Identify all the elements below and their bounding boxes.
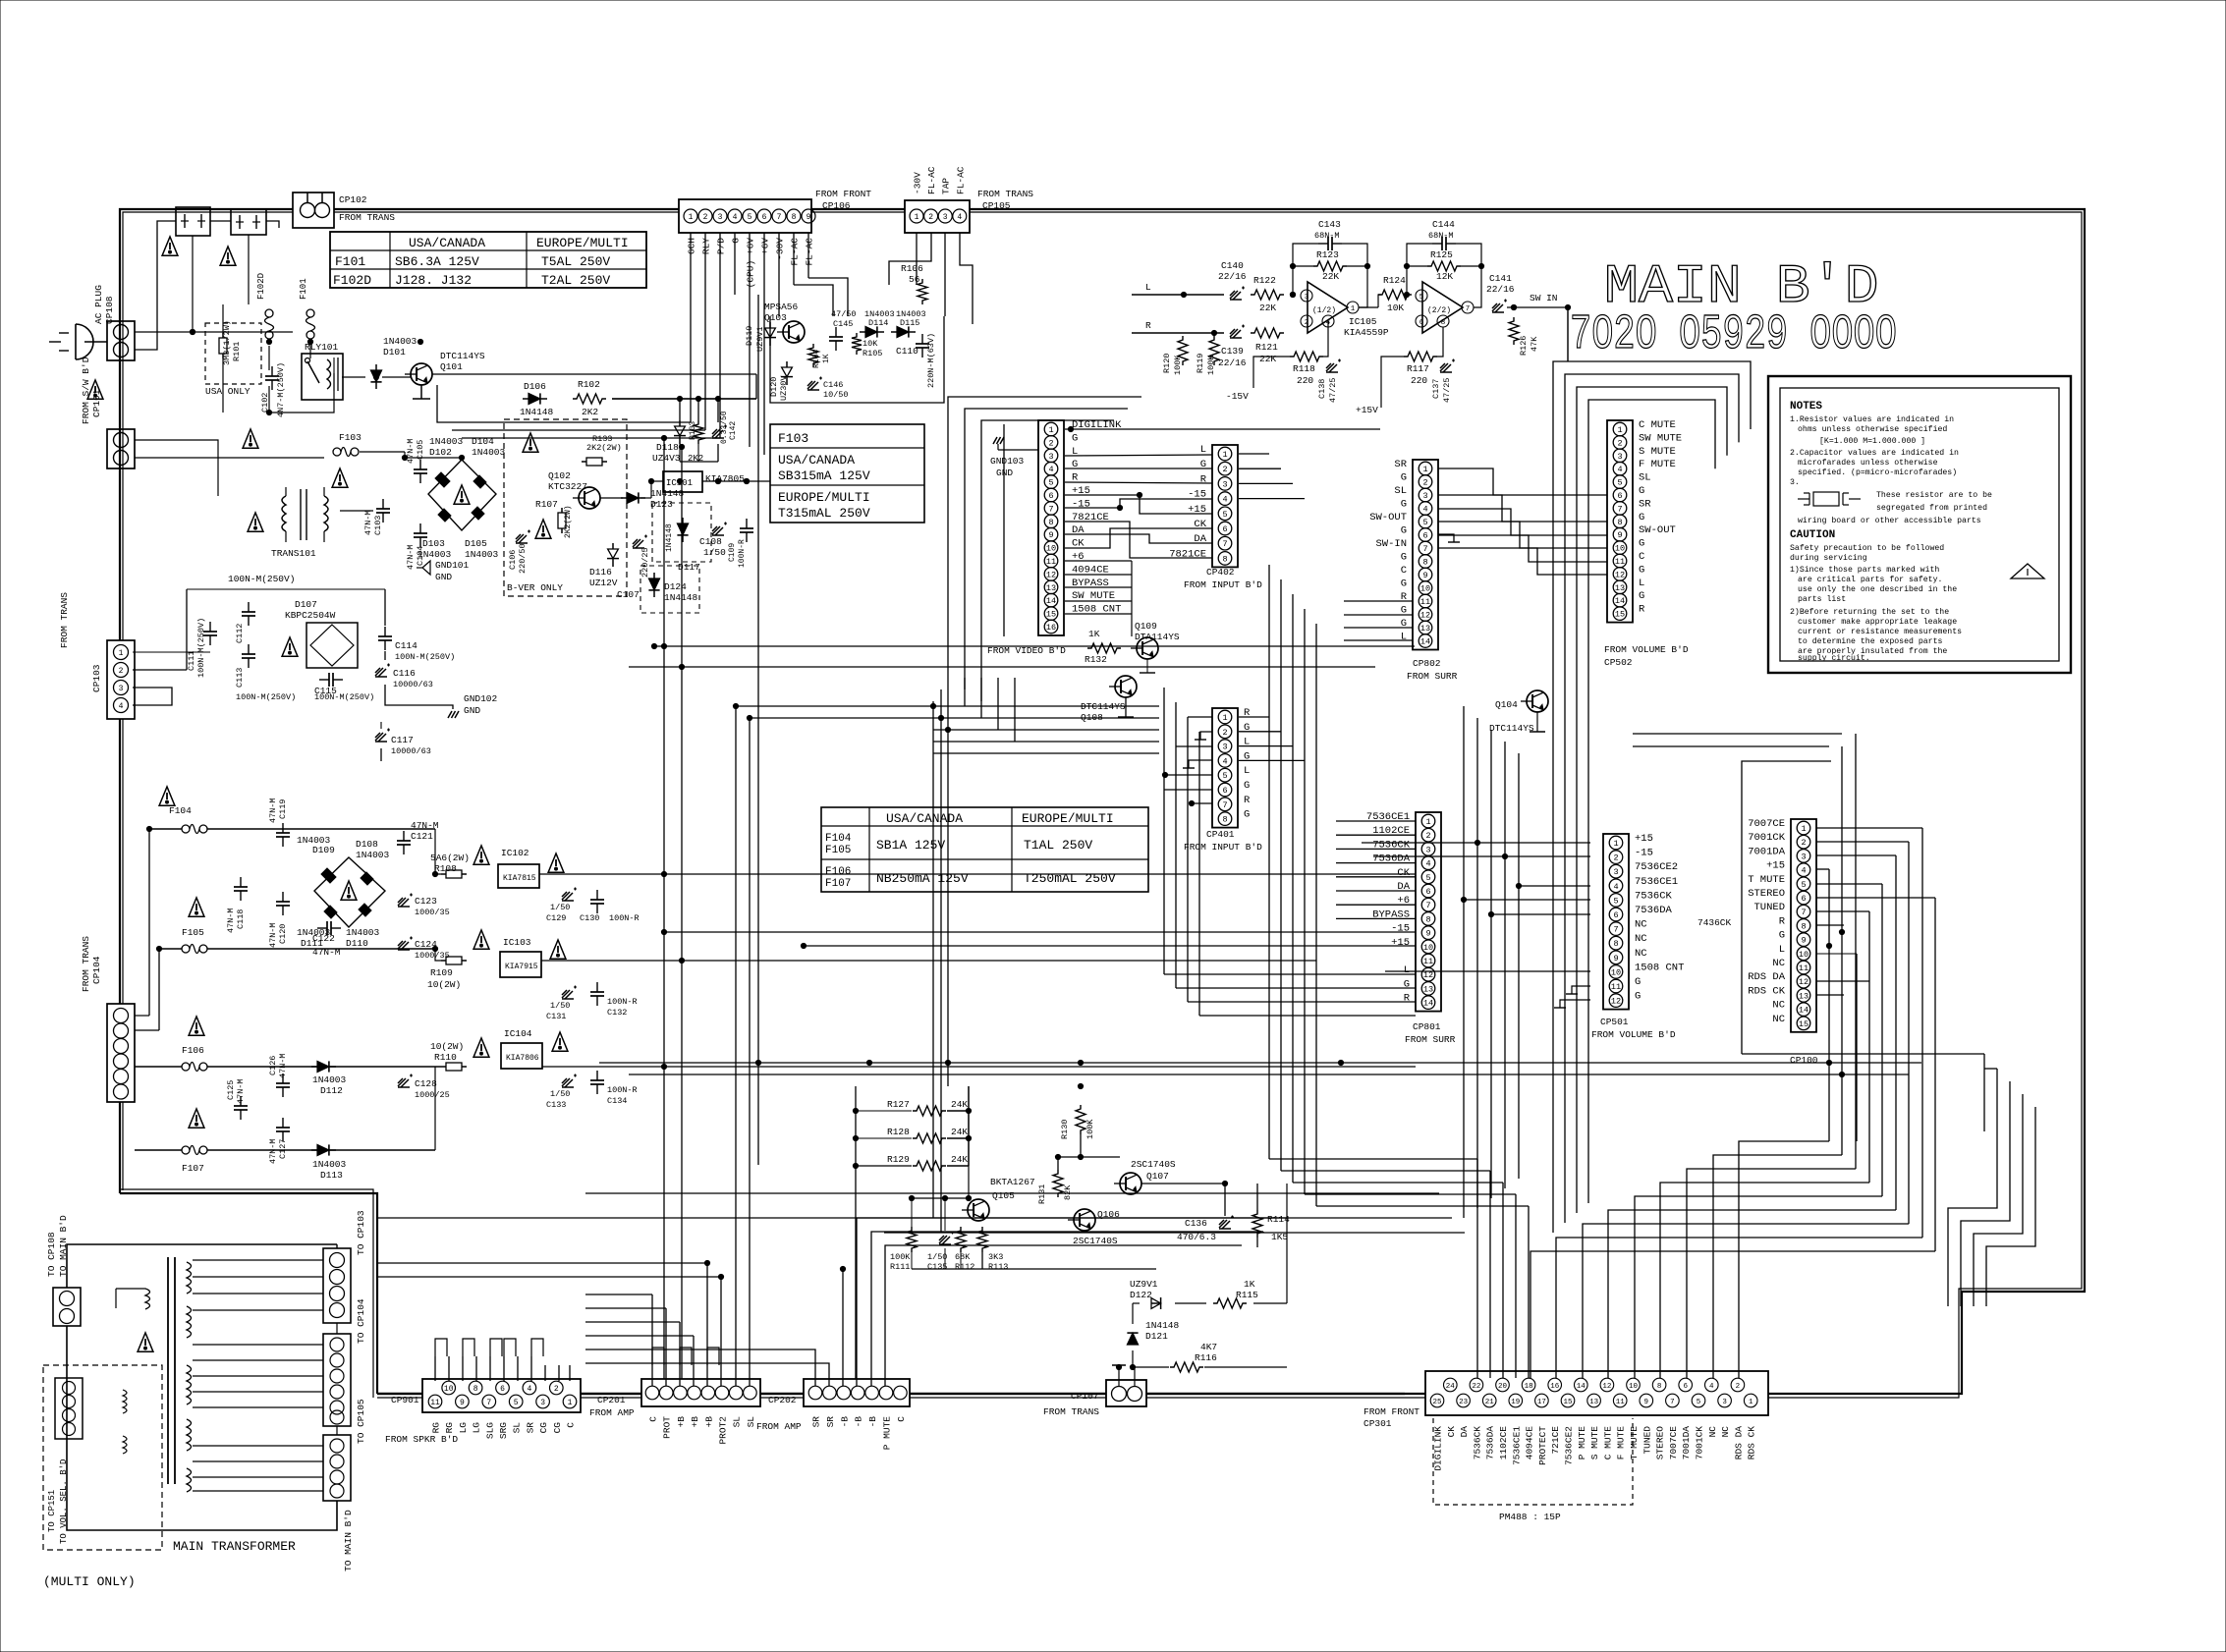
capacitor C106 220/50: [516, 530, 530, 544]
svg-text:C137: C137: [1431, 379, 1441, 399]
svg-text:8: 8: [1425, 914, 1430, 924]
svg-text:C134: C134: [607, 1096, 627, 1106]
svg-text:8: 8: [1222, 815, 1227, 825]
svg-text:2: 2: [1736, 1383, 1741, 1391]
svg-text:SW-OUT: SW-OUT: [1639, 524, 1676, 536]
wire CP401 pins right: [1239, 716, 1269, 718]
svg-text:9: 9: [1422, 571, 1427, 580]
resistor R125 12K: [1427, 261, 1461, 271]
svg-text:SR: SR: [525, 1422, 535, 1434]
capacitor C102 4N7-M(250V): [271, 366, 273, 376]
svg-text:24K: 24K: [951, 1154, 968, 1165]
svg-text:-15V: -15V: [1226, 391, 1249, 402]
zener D119 UZ9V1: [765, 328, 776, 338]
svg-text:C128: C128: [415, 1078, 437, 1089]
svg-text:47/25: 47/25: [1442, 377, 1452, 403]
connector CP106 from front: [679, 199, 811, 233]
wire SW-IN from op-amp: [1567, 307, 1569, 361]
svg-text:L: L: [1779, 944, 1785, 956]
svg-text:13: 13: [1589, 1399, 1599, 1406]
svg-text:100N-R: 100N-R: [738, 539, 747, 568]
svg-text:100K: 100K: [890, 1252, 911, 1262]
wire CP301 left horizontals: [585, 1192, 1439, 1194]
capacitor C115: [319, 679, 329, 681]
svg-text:GND: GND: [435, 572, 452, 582]
svg-text:MPSA56: MPSA56: [764, 302, 799, 312]
svg-text:3: 3: [1422, 491, 1427, 501]
svg-text:G: G: [1401, 472, 1407, 484]
warning triangle TRANS101: [248, 513, 263, 531]
ground GND101: [422, 561, 430, 575]
svg-text:SB6.3A 125V: SB6.3A 125V: [395, 254, 479, 269]
svg-text:8: 8: [1222, 554, 1227, 564]
svg-text:R124: R124: [1383, 275, 1406, 286]
svg-text:during servicing: during servicing: [1790, 553, 1867, 563]
svg-text:6: 6: [1422, 531, 1427, 541]
svg-text:7536CK: 7536CK: [1472, 1426, 1482, 1460]
svg-text:C120: C120: [278, 924, 288, 944]
wire 7436CK trace: [1680, 931, 1696, 982]
svg-text:SL: SL: [512, 1422, 523, 1434]
svg-text:R131: R131: [1037, 1184, 1047, 1204]
svg-text:47N-M: 47N-M: [268, 1138, 278, 1164]
wire CP106 pin8 to Q103 box: [794, 285, 833, 316]
svg-text:12: 12: [1420, 611, 1430, 621]
svg-text:FROM TRANS: FROM TRANS: [1043, 1406, 1099, 1417]
svg-text:R105: R105: [863, 349, 882, 358]
svg-text:FROM SURR: FROM SURR: [1407, 671, 1458, 682]
svg-text:C112: C112: [235, 624, 245, 643]
svg-text:7536CK: 7536CK: [1635, 890, 1673, 902]
svg-text:22K: 22K: [1259, 303, 1276, 313]
diode D114 1N4003: [865, 326, 877, 337]
wire long horizontal y1240: [377, 1217, 1452, 1219]
svg-text:47N-M: 47N-M: [363, 510, 373, 535]
svg-text:USA/CANADA: USA/CANADA: [409, 236, 485, 250]
svg-text:13: 13: [1046, 583, 1056, 593]
wire far right horizontals: [1984, 1068, 1997, 1070]
wire IC101 output: [702, 480, 770, 482]
wire CP103 to caps: [133, 651, 210, 653]
svg-text:10/50: 10/50: [823, 390, 849, 400]
wire vertical long x960: [932, 701, 934, 1218]
svg-text:15: 15: [1563, 1399, 1573, 1406]
svg-text:47N-M: 47N-M: [268, 922, 278, 948]
svg-text:7536CE2: 7536CE2: [1564, 1426, 1575, 1465]
svg-text:C133: C133: [546, 1100, 566, 1110]
svg-text:DA: DA: [1459, 1426, 1470, 1438]
svg-text:7536DA: 7536DA: [1485, 1426, 1496, 1460]
svg-text:22: 22: [1472, 1383, 1480, 1391]
svg-text:9: 9: [1617, 530, 1622, 540]
svg-text:10K: 10K: [863, 339, 878, 349]
svg-text:100K: 100K: [1206, 355, 1216, 375]
svg-text:+B: +B: [690, 1416, 700, 1428]
svg-text:D124: D124: [664, 581, 687, 592]
svg-text:R102: R102: [578, 379, 600, 390]
svg-text:SB1A 125V: SB1A 125V: [876, 838, 945, 853]
svg-text:CP101: CP101: [91, 389, 102, 417]
svg-text:T1AL 250V: T1AL 250V: [1024, 838, 1092, 853]
svg-text:6: 6: [1222, 786, 1227, 796]
svg-text:+15: +15: [1635, 833, 1653, 845]
svg-text:1N4148: 1N4148: [1145, 1320, 1180, 1331]
svg-text:1: 1: [1617, 425, 1622, 435]
svg-text:7: 7: [1670, 1399, 1675, 1406]
svg-text:G: G: [1401, 578, 1407, 590]
svg-text:8: 8: [1422, 558, 1427, 568]
svg-text:8: 8: [1048, 518, 1053, 527]
svg-text:C145: C145: [833, 319, 853, 329]
svg-text:CP202: CP202: [768, 1395, 797, 1405]
svg-text:6: 6: [1683, 1383, 1688, 1391]
svg-text:8: 8: [1801, 921, 1806, 931]
svg-text:D120: D120: [769, 377, 779, 397]
svg-text:C136: C136: [1185, 1218, 1207, 1229]
svg-text:R: R: [1244, 795, 1251, 806]
wire CP201 risers to mid horizontals: [377, 1263, 707, 1386]
ground GND102: [448, 711, 459, 718]
svg-text:47/50: 47/50: [831, 309, 857, 319]
svg-text:1: 1: [1613, 839, 1618, 849]
svg-text:47N-M: 47N-M: [268, 798, 278, 823]
resistor R103 2K2: [694, 420, 703, 444]
svg-text:C135: C135: [927, 1262, 947, 1272]
wire CP401 pin connections left: [1188, 716, 1212, 718]
svg-text:R128: R128: [887, 1127, 910, 1137]
resistor R130 100K: [1076, 1105, 1085, 1134]
wire to relay: [269, 373, 334, 413]
svg-text:14: 14: [1577, 1383, 1586, 1391]
svg-text:R119: R119: [1196, 354, 1205, 373]
resistor R123 22K: [1313, 261, 1347, 271]
svg-text:5: 5: [748, 213, 752, 222]
svg-text:3: 3: [1722, 1399, 1727, 1406]
bridge rectifier D107 KBPC2504W: [306, 623, 358, 668]
connector CP501 from volume board: [1603, 834, 1629, 1010]
svg-text:1N4148: 1N4148: [664, 592, 698, 603]
svg-text:SW-OUT: SW-OUT: [1369, 512, 1407, 523]
warning triangle C102: [243, 429, 258, 448]
svg-text:12: 12: [1615, 570, 1625, 579]
svg-text:5: 5: [1801, 880, 1806, 890]
svg-text:1: 1: [1422, 465, 1427, 474]
svg-text:R126: R126: [1519, 336, 1529, 356]
svg-text:specified. (p=micro-microfara: specified. (p=micro-microfarades): [1798, 468, 1957, 477]
svg-text:G: G: [1401, 525, 1407, 537]
svg-text:customer make appropriate leak: customer make appropriate leakage: [1798, 617, 1957, 627]
svg-text:C126: C126: [268, 1056, 278, 1075]
connector CP901 from speaker board: [422, 1379, 581, 1412]
svg-text:KIA7805: KIA7805: [705, 473, 745, 484]
svg-text:FL-AC: FL-AC: [805, 238, 815, 266]
svg-text:11: 11: [1420, 597, 1430, 607]
svg-text:T5AL 250V: T5AL 250V: [541, 254, 610, 269]
svg-text:9: 9: [1425, 929, 1430, 939]
svg-text:C108: C108: [699, 536, 722, 547]
svg-text:7: 7: [1222, 539, 1227, 549]
svg-text:GND103: GND103: [990, 456, 1025, 467]
svg-text:KIA7815: KIA7815: [503, 874, 536, 883]
svg-text:1: 1: [1048, 425, 1053, 435]
wire verticals dropping from group to bottom: [964, 678, 966, 706]
svg-text:15: 15: [1615, 610, 1625, 620]
svg-text:C146: C146: [823, 380, 843, 390]
warning triangle F106: [189, 1017, 204, 1035]
svg-text:D110: D110: [346, 938, 368, 949]
resistor R115 1K: [1213, 1298, 1247, 1308]
svg-text:T2AL 250V: T2AL 250V: [541, 273, 610, 288]
svg-text:NB250mA 125V: NB250mA 125V: [876, 871, 969, 886]
connector CP801 from surround: [1416, 812, 1441, 1012]
svg-text:5: 5: [1222, 771, 1227, 781]
svg-text:1N4148: 1N4148: [520, 407, 554, 417]
svg-text:SR: SR: [811, 1416, 822, 1428]
svg-text:SR: SR: [1394, 459, 1407, 470]
wire vertical long x676: [663, 438, 665, 1379]
capacitor C140 22/16: [1230, 287, 1245, 301]
svg-text:4: 4: [1613, 882, 1618, 892]
resistor R107 2K2(2W): [561, 508, 563, 513]
feedback wires IC105a: [1293, 244, 1318, 295]
svg-text:3: 3: [1617, 452, 1622, 462]
wire R101 C102 F101 F102D verticals: [268, 346, 270, 370]
connector CP201 from amp: [641, 1379, 760, 1406]
wire mid vertical bus between CP801 and CP501: [1463, 706, 1465, 1218]
svg-text:RG: RG: [444, 1422, 455, 1434]
capacitor C146 10/50: [807, 377, 822, 391]
svg-text:SR: SR: [825, 1416, 836, 1428]
wire L to opamp: [1132, 294, 1224, 296]
svg-text:7001CK: 7001CK: [1748, 832, 1786, 844]
capacitor C118 47N-M: [240, 877, 242, 887]
svg-text:C110: C110: [896, 346, 918, 357]
svg-text:1N4003: 1N4003: [297, 927, 331, 938]
svg-text:1000/25: 1000/25: [415, 1090, 450, 1100]
op-amp IC105 first half: [1308, 282, 1348, 333]
connector TO CP105: [323, 1435, 351, 1501]
svg-text:D111: D111: [301, 938, 323, 949]
svg-text:C129: C129: [546, 913, 566, 923]
wire D106 R102 junctions: [612, 398, 756, 400]
svg-text:1000/35: 1000/35: [415, 908, 450, 917]
wire SW IN: [1507, 306, 1568, 308]
svg-text:C141: C141: [1489, 273, 1512, 284]
wire right mega bus verticals: [1828, 869, 1830, 1141]
svg-text:C138: C138: [1317, 379, 1327, 399]
svg-text:NOTES: NOTES: [1790, 401, 1822, 413]
svg-text:56: 56: [909, 274, 920, 285]
svg-text:NC: NC: [1772, 1000, 1785, 1012]
svg-text:7001DA: 7001DA: [1748, 846, 1786, 857]
diode D115 1N4003: [897, 326, 909, 337]
svg-text:11: 11: [430, 1399, 440, 1407]
svg-text:F101: F101: [335, 254, 365, 269]
svg-text:R117: R117: [1407, 363, 1429, 374]
svg-text:5: 5: [1425, 873, 1430, 883]
svg-text:5: 5: [1419, 294, 1424, 302]
svg-text:L: L: [1401, 632, 1407, 643]
secondary windings: [187, 1262, 192, 1294]
connector CP108: [107, 321, 135, 360]
fuse F105: [182, 945, 190, 953]
resistor R105 10K: [852, 333, 862, 355]
svg-text:G: G: [1639, 564, 1644, 576]
svg-text:47N-M: 47N-M: [406, 438, 416, 464]
svg-text:2K2(2W): 2K2(2W): [564, 505, 573, 538]
diode D113 1N4003: [317, 1144, 329, 1155]
speaker bracket symbols above CP201: [652, 1348, 664, 1365]
svg-text:-B: -B: [854, 1416, 864, 1428]
svg-text:G: G: [1639, 485, 1644, 497]
warning triangle transformer: [138, 1333, 153, 1351]
wire D106 R102 to right: [612, 398, 756, 400]
fuse holder box 2: [231, 209, 266, 235]
zener diode D116 UZ12V: [608, 549, 619, 559]
svg-text:1N4003: 1N4003: [383, 336, 417, 347]
svg-text:C106: C106: [508, 550, 518, 570]
wire CP201 long verticals up: [735, 706, 737, 1386]
svg-text:24: 24: [1446, 1383, 1456, 1391]
svg-text:R116: R116: [1195, 1352, 1217, 1363]
svg-text:100N-R: 100N-R: [607, 1085, 638, 1095]
svg-text:7: 7: [1048, 504, 1053, 514]
svg-text:R107: R107: [535, 499, 558, 510]
transistor Q101 DTC114YS: [411, 363, 432, 385]
nested loop wires around video connector: [948, 397, 1141, 678]
relay RLY101: [302, 354, 343, 400]
svg-text:T MUTE: T MUTE: [1629, 1426, 1640, 1460]
svg-text:3: 3: [1305, 294, 1309, 302]
svg-text:FROM AMP: FROM AMP: [756, 1421, 802, 1432]
svg-text:4: 4: [1222, 756, 1227, 766]
svg-text:2: 2: [1617, 438, 1622, 448]
svg-text:C116: C116: [393, 668, 416, 679]
svg-text:R132: R132: [1085, 654, 1107, 665]
resistor R126 47K: [1509, 317, 1519, 345]
svg-text:TO CP105: TO CP105: [356, 1399, 366, 1444]
svg-text:1K: 1K: [1088, 629, 1100, 639]
wire AC plug to CP108: [84, 341, 107, 343]
svg-text:1N4003: 1N4003: [312, 1159, 347, 1170]
connector TO CP103: [323, 1248, 351, 1323]
svg-text:D113: D113: [320, 1170, 343, 1181]
svg-text:Q109: Q109: [1135, 621, 1157, 632]
svg-text:SRG: SRG: [498, 1422, 509, 1439]
svg-text:11: 11: [1616, 1399, 1626, 1406]
svg-text:1.Resistor values are indicate: 1.Resistor values are indicated in: [1790, 414, 1954, 424]
wire CP104 riser to F104 rail: [148, 829, 150, 1016]
svg-text:5A6(2W): 5A6(2W): [430, 853, 470, 863]
svg-text:CP401: CP401: [1206, 829, 1235, 840]
capacitor C107 220/25: [633, 535, 647, 549]
svg-text:UZ4V3: UZ4V3: [652, 453, 681, 464]
svg-text:47N-M: 47N-M: [226, 908, 236, 933]
svg-text:8: 8: [792, 213, 797, 222]
svg-text:68K: 68K: [955, 1252, 971, 1262]
svg-text:47K: 47K: [1530, 336, 1539, 352]
svg-text:3: 3: [540, 1399, 545, 1407]
svg-text:22K: 22K: [1322, 271, 1339, 282]
svg-text:F105: F105: [182, 927, 204, 938]
svg-text:2: 2: [1425, 831, 1430, 841]
svg-text:3: 3: [718, 213, 723, 222]
svg-text:4: 4: [1222, 495, 1227, 505]
svg-text:USA/CANADA: USA/CANADA: [886, 811, 963, 826]
svg-text:G: G: [1244, 780, 1250, 792]
warning triangle 2: [220, 247, 236, 265]
wire zener outputs to ground: [679, 444, 681, 462]
svg-text:23: 23: [1459, 1399, 1469, 1406]
svg-text:G: G: [1779, 930, 1785, 942]
wire video loop left box: [1003, 424, 1005, 636]
capacitor C110 220N-M(63V): [921, 334, 923, 344]
warning triangle below AC plug: [87, 380, 103, 399]
capacitor C144 68N-M: [1432, 243, 1442, 245]
svg-text:4: 4: [1709, 1383, 1714, 1391]
svg-text:47N-M: 47N-M: [236, 1078, 246, 1104]
svg-text:SL: SL: [732, 1416, 743, 1428]
svg-text:C113: C113: [235, 668, 245, 688]
wire 24K right vertical: [968, 1086, 970, 1198]
resistor R111 100K: [907, 1227, 917, 1252]
resistor R127 24K: [913, 1106, 946, 1116]
transistor Q104 DTC114YS: [1527, 690, 1548, 712]
svg-text:GND: GND: [996, 468, 1013, 478]
zener D120 UZ30V: [782, 367, 793, 377]
svg-text:7: 7: [1422, 544, 1427, 554]
svg-text:to determine the exposed parts: to determine the exposed parts: [1798, 636, 1942, 646]
svg-text:5: 5: [1422, 518, 1427, 527]
capacitor C116 10000/63: [375, 664, 390, 678]
svg-text:STEREO: STEREO: [1655, 1426, 1666, 1460]
svg-text:CP104: CP104: [91, 956, 102, 984]
resistor R113 3K3: [977, 1227, 987, 1252]
svg-text:CP106: CP106: [822, 200, 851, 211]
schematic outer border frame: [120, 209, 2085, 1394]
svg-text:8: 8: [1613, 939, 1618, 949]
svg-text:R: R: [1779, 915, 1786, 927]
svg-text:3: 3: [1048, 452, 1053, 462]
svg-text:100K: 100K: [1085, 1119, 1095, 1139]
svg-text:1508 CNT: 1508 CNT: [1635, 962, 1684, 973]
svg-text:1: 1: [568, 1399, 573, 1407]
svg-text:R111: R111: [890, 1262, 910, 1272]
svg-text:3K3: 3K3: [988, 1252, 1003, 1262]
wire R to opamp: [1132, 332, 1224, 334]
warning triangle IC103 right: [550, 940, 566, 959]
svg-text:2K2: 2K2: [582, 407, 598, 417]
svg-text:C107: C107: [617, 589, 640, 600]
warning triangle F103: [332, 468, 348, 487]
svg-text:CP102: CP102: [339, 194, 367, 205]
capacitor C136 470/6.3: [1219, 1216, 1234, 1230]
transistor Q107 2SC1740S: [1120, 1173, 1141, 1194]
wire CP106 pin3 run: [462, 437, 720, 439]
svg-text:SL: SL: [1394, 485, 1407, 497]
svg-text:(2/2): (2/2): [1427, 306, 1451, 315]
svg-text:R: R: [1404, 993, 1411, 1005]
svg-text:2: 2: [1222, 728, 1227, 738]
wire F106 rail: [135, 1066, 182, 1068]
svg-text:CP103: CP103: [91, 664, 102, 692]
transistor Q109 DTA114YS: [1137, 637, 1158, 659]
wire CP402 CP401 bus to CP801 L G R: [1163, 688, 1165, 974]
svg-text:C132: C132: [607, 1008, 627, 1018]
svg-text:22K: 22K: [1259, 354, 1276, 364]
svg-text:14: 14: [1046, 596, 1056, 606]
svg-text:L: L: [1145, 282, 1151, 293]
